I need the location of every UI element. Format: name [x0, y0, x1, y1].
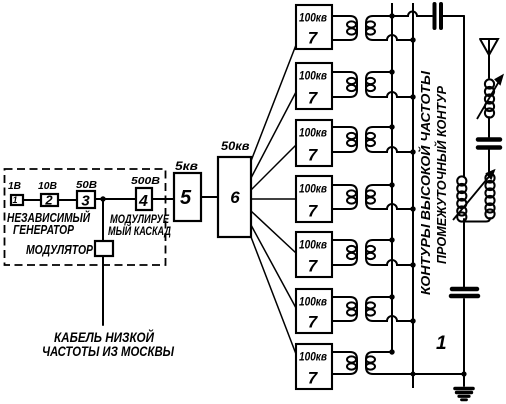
- svg-text:5кв: 5кв: [175, 159, 198, 173]
- svg-text:100кв: 100кв: [299, 240, 327, 252]
- svg-text:1: 1: [12, 195, 17, 205]
- svg-text:7: 7: [308, 202, 319, 221]
- svg-text:4: 4: [138, 193, 148, 210]
- svg-text:100кв: 100кв: [299, 128, 327, 140]
- svg-text:7: 7: [308, 146, 319, 165]
- svg-text:100кв: 100кв: [299, 13, 327, 25]
- svg-text:50В: 50В: [76, 179, 97, 191]
- svg-text:100кв: 100кв: [299, 352, 327, 364]
- svg-text:ПРОМЕЖУТОЧНЫЙ КОНТУР: ПРОМЕЖУТОЧНЫЙ КОНТУР: [433, 86, 449, 264]
- svg-text:500В: 500В: [131, 175, 160, 187]
- svg-text:10В: 10В: [38, 180, 57, 192]
- svg-text:МЫЙ КАСКАД: МЫЙ КАСКАД: [108, 222, 171, 238]
- svg-text:100кв: 100кв: [299, 297, 327, 309]
- svg-text:100кв: 100кв: [299, 184, 327, 196]
- svg-text:ЧАСТОТЫ ИЗ МОСКВЫ: ЧАСТОТЫ ИЗ МОСКВЫ: [42, 344, 174, 359]
- svg-text:3: 3: [81, 193, 90, 210]
- svg-text:1В: 1В: [8, 180, 21, 192]
- svg-text:6: 6: [230, 188, 240, 207]
- svg-text:100кв: 100кв: [299, 71, 327, 83]
- svg-text:2: 2: [44, 193, 53, 208]
- svg-text:ГЕНЕРАТОР: ГЕНЕРАТОР: [13, 222, 74, 237]
- svg-text:50кв: 50кв: [221, 141, 250, 153]
- svg-text:7: 7: [308, 89, 319, 108]
- svg-text:МОДУЛЯТОР: МОДУЛЯТОР: [26, 243, 94, 257]
- svg-text:7: 7: [308, 369, 319, 388]
- svg-text:7: 7: [308, 29, 319, 48]
- svg-text:7: 7: [308, 257, 319, 276]
- svg-text:7: 7: [308, 313, 319, 332]
- svg-text:5: 5: [180, 187, 192, 209]
- svg-text:КАБЕЛЬ НИЗКОЙ: КАБЕЛЬ НИЗКОЙ: [54, 329, 154, 345]
- svg-text:КОНТУРЫ ВЫСОКОЙ ЧАСТОТЫ: КОНТУРЫ ВЫСОКОЙ ЧАСТОТЫ: [417, 70, 433, 295]
- svg-text:1: 1: [436, 333, 447, 354]
